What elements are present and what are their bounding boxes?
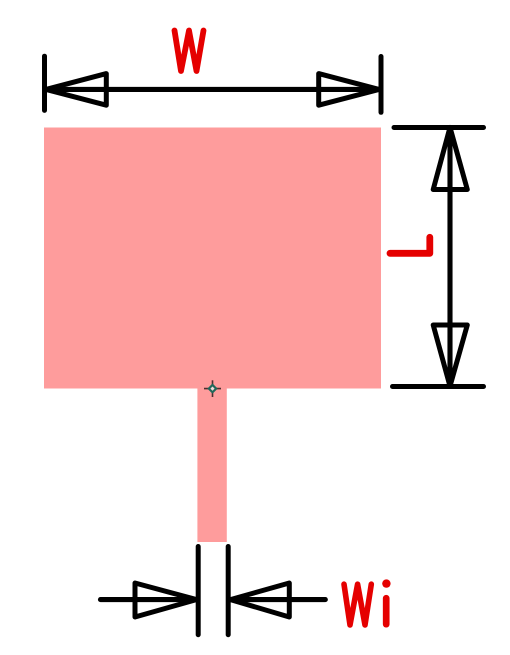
dimension W: left arrowhead [46,74,106,106]
dimension Wi: left arrowhead (points right) [135,583,196,617]
label Wi: letter i stem [383,598,390,624]
label L (rotated) [390,237,430,253]
patch (metal rectangle W x L) [44,128,381,389]
dimension L: bottom arrowhead [433,325,467,386]
dimension L: top extension tick [394,125,484,130]
label Wi: letter i dot [382,579,390,587]
port marker crosshair vertical [212,380,214,397]
port marker crosshair horizontal [204,388,221,390]
dimension Wi: left extension tick [196,547,201,635]
dimension L: shaft line [447,129,452,381]
dimension W: left extension tick [42,56,47,110]
dimension L: bottom extension tick [393,384,484,389]
dimension Wi: left shaft line [101,597,197,602]
dimension W: right extension tick [379,57,384,113]
dimension L: top arrowhead [433,127,467,189]
label W [175,31,204,72]
port marker diamond outer [207,383,217,393]
dimension Wi: right arrowhead (points left) [230,583,289,617]
dimension Wi: right shaft line [230,597,325,602]
dimension W: shaft line [46,87,379,92]
port marker diamond inner [210,387,214,391]
label Wi: letter W [344,584,371,625]
dimension Wi: right extension tick [226,547,231,635]
feed line (microstrip feed, width Wi) [197,384,226,542]
dimension W: right arrowhead [319,74,379,106]
